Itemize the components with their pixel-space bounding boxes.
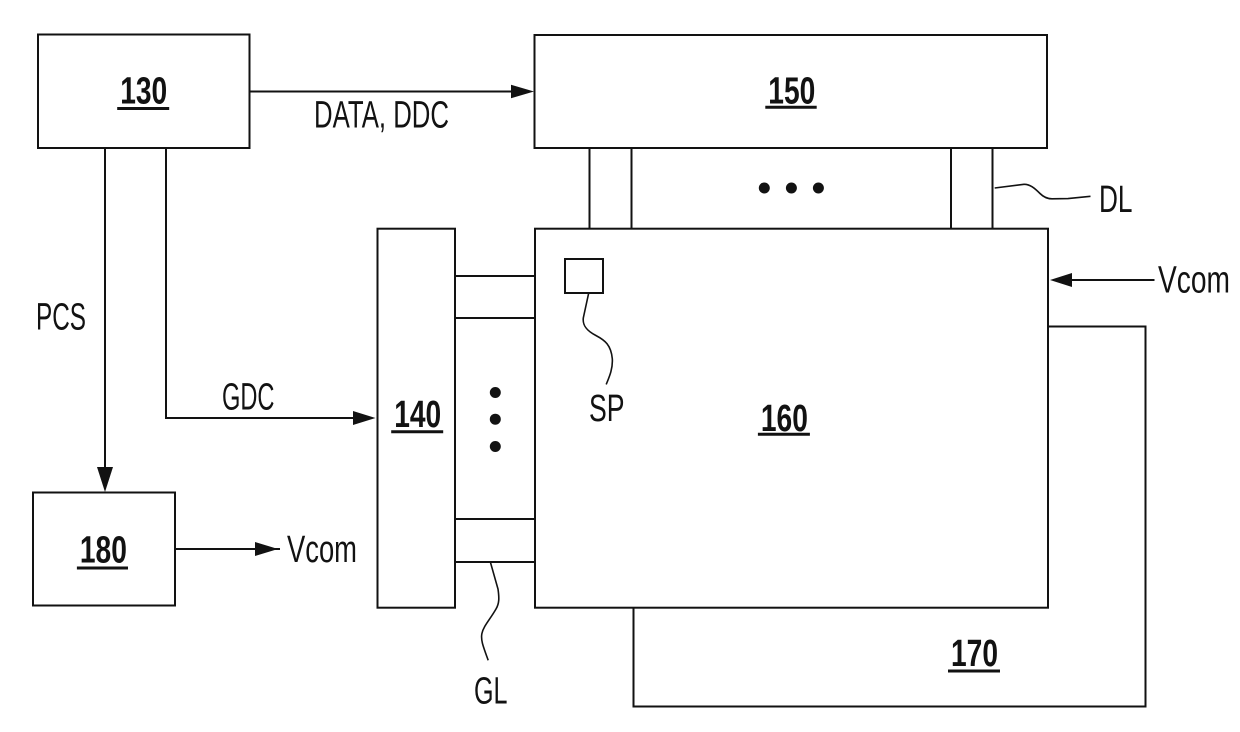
wire DL-left connector line 2 (631, 148, 633, 229)
block 140 (gate driver) (378, 229, 456, 608)
wire Vcom arrow into right side of 160 (1071, 279, 1155, 281)
svg-text:PCS: PCS (36, 297, 86, 339)
svg-text:GDC: GDC (222, 377, 275, 419)
svg-text:140: 140 (394, 394, 441, 436)
sub-pixel SP square inside 160 (565, 259, 603, 293)
dots between 140 and 160 (490, 387, 501, 452)
leader squiggle to GL label (482, 562, 499, 660)
block 170 (backlight unit) (634, 327, 1146, 707)
wire GL-upper connector line 2 (455, 317, 535, 319)
block 180 (power supply) (33, 493, 175, 606)
svg-text:180: 180 (80, 530, 127, 572)
wire DL-right connector line 2 (992, 148, 994, 229)
wire DATA,DDC arrow from 130 to 150 (250, 91, 514, 93)
wire DL-right connector line 1 (950, 148, 952, 229)
svg-text:170: 170 (951, 633, 998, 675)
wire GL-lower connector line 2 (455, 561, 535, 563)
dots between 150 and 160 (759, 183, 824, 194)
wire GL-upper connector line 1 (455, 275, 535, 277)
leader squiggle to DL label (995, 184, 1091, 199)
svg-text:DL: DL (1099, 179, 1133, 221)
svg-text:GL: GL (474, 671, 508, 713)
svg-text:Vcom: Vcom (1158, 260, 1230, 302)
wire PCS from 130 down to 180 (104, 148, 106, 468)
block 150 (data driver) (535, 35, 1048, 148)
leader squiggle to SP label (583, 293, 612, 384)
block 130 (timing controller) (38, 35, 250, 149)
block 160 (display panel) (535, 229, 1048, 608)
wire DL-left connector line 1 (589, 148, 591, 229)
wire Vcom arrow from 180 (175, 548, 280, 550)
svg-text:DATA, DDC: DATA, DDC (314, 95, 449, 137)
wire GDC from 130 down then right to 140 (166, 148, 356, 418)
svg-text:130: 130 (120, 71, 167, 113)
svg-text:Vcom: Vcom (287, 529, 357, 571)
wire GL-lower connector line 1 (455, 518, 535, 520)
svg-text:SP: SP (589, 388, 625, 430)
